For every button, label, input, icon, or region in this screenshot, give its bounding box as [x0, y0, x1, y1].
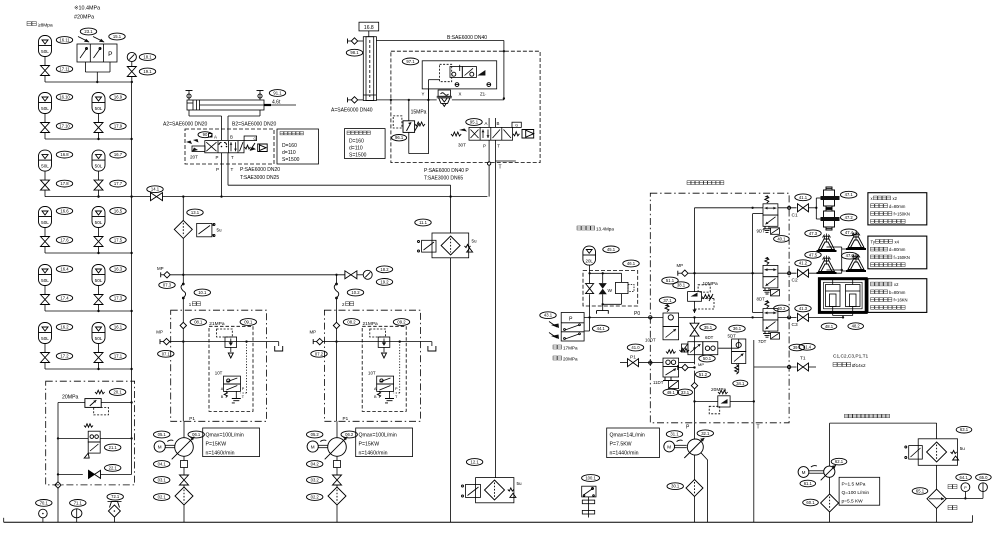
svg-text:C1,C2,C3,P1,T1: C1,C2,C3,P1,T1: [833, 354, 869, 360]
svg-text:17.10: 17.10: [59, 124, 70, 129]
label 38.1: [673, 282, 689, 289]
note A2 port: [163, 122, 208, 128]
svg-text:17.5: 17.5: [114, 238, 123, 243]
svg-text:P0: P0: [634, 311, 640, 317]
svg-text:17.11: 17.11: [59, 67, 70, 72]
svg-text:07.3: 07.3: [163, 283, 172, 288]
pressure switch block 44: [549, 313, 584, 342]
svg-text:n=1440r/min: n=1440r/min: [610, 451, 639, 457]
svg-text:41.3: 41.3: [799, 306, 808, 311]
tank drain 46: [597, 304, 609, 314]
label 70.1: [36, 500, 52, 507]
svg-text:50L: 50L: [41, 106, 49, 111]
shut-off valve 17.9: [94, 123, 103, 140]
svg-text:n=1460r/min: n=1460r/min: [359, 451, 388, 457]
tank drain 2: [428, 342, 436, 351]
label 45.1: [603, 246, 619, 253]
svg-text:P: P: [216, 155, 219, 160]
wire MP line: [161, 272, 345, 278]
shut-off valve C2: [798, 269, 809, 277]
spec box ty-clamp: [868, 236, 927, 269]
svg-text:40.1: 40.1: [777, 236, 786, 241]
clamp 47.2: [821, 208, 840, 230]
svg-text:48.2: 48.2: [852, 324, 861, 329]
shut-off valve in 46: [586, 284, 594, 294]
svg-text:09.1: 09.1: [244, 320, 253, 325]
label 64.1: [956, 474, 972, 481]
svg-text:P: P: [108, 51, 112, 58]
svg-text:10T: 10T: [215, 371, 223, 376]
svg-text:47.1: 47.1: [845, 192, 854, 197]
note 10T 2: [368, 371, 376, 376]
wire C3 branch: [809, 316, 845, 318]
svg-text:71.1: 71.1: [74, 500, 83, 505]
svg-text:19.1: 19.1: [143, 69, 152, 74]
pressure switch block 23.1: [77, 37, 117, 63]
wire supply bus east: [451, 196, 488, 198]
pressure gauge 64: [961, 483, 970, 499]
svg-text:37.1: 37.1: [663, 298, 672, 303]
drive shaft cooling: [809, 466, 824, 474]
label 36.1: [729, 325, 745, 332]
label 43.1: [540, 312, 556, 319]
svg-text:MP: MP: [310, 330, 317, 335]
pump 2: [325, 421, 348, 460]
svg-text:d=80mm: d=80mm: [889, 247, 906, 252]
junction: [97, 310, 99, 312]
label 51.2: [696, 371, 711, 377]
svg-text:P=7.5KW: P=7.5KW: [610, 442, 632, 448]
label 04.2: [307, 461, 323, 468]
label 07.3: [159, 282, 175, 289]
svg-text:P1: P1: [630, 354, 636, 360]
svg-text:T:SAE3000 DN25: T:SAE3000 DN25: [240, 175, 279, 181]
label 17.8: [56, 180, 72, 187]
svg-text:20MPa: 20MPa: [563, 357, 578, 362]
filter 13.1: [174, 220, 222, 238]
note 10T 1: [215, 371, 223, 376]
svg-text:20L: 20L: [586, 258, 594, 263]
wire T 90: [227, 153, 229, 185]
spec box press-clamp: [868, 279, 927, 313]
svg-text:5u: 5u: [472, 239, 478, 244]
svg-text:38.1: 38.1: [677, 283, 686, 288]
svg-text:G: G: [515, 124, 518, 128]
label 18.2: [376, 266, 392, 273]
svg-text:16.6: 16.6: [60, 209, 69, 214]
solenoid valve 11DT: [653, 350, 679, 389]
svg-text:17.8: 17.8: [60, 181, 69, 186]
shut-off valve P1: [628, 359, 639, 367]
svg-text:09.2: 09.2: [397, 320, 406, 325]
cylinder 98 body: [363, 37, 376, 101]
svg-text:M: M: [158, 444, 162, 449]
solenoid valve in 46: [603, 282, 634, 304]
accumulator 16.1: [92, 323, 105, 353]
wire row bus 0: [45, 81, 132, 83]
svg-text:f=150KN: f=150KN: [894, 212, 910, 217]
spec box column: [345, 129, 386, 159]
wire row bus 5: [45, 368, 132, 370]
dashed box relief 2: [362, 326, 406, 411]
label 17.7: [110, 180, 126, 187]
shut-off valve 14.1: [151, 193, 163, 201]
dashed box manifold: [650, 193, 789, 423]
label 18.1: [139, 54, 155, 61]
bleed valve right: [257, 91, 264, 101]
wire P 90: [221, 153, 223, 197]
junction: [97, 195, 99, 197]
pressure gauge 18.1: [127, 52, 136, 61]
svg-text:A2=SAE6000 DN20: A2=SAE6000 DN20: [163, 122, 208, 128]
label 10.2: [347, 289, 363, 296]
svg-text:44.1: 44.1: [597, 326, 606, 331]
label 60.1: [803, 499, 819, 506]
label 22.1: [105, 465, 121, 472]
filter 63.1: [905, 439, 965, 466]
svg-text:M: M: [667, 444, 671, 449]
note C1: [792, 213, 798, 219]
label 03.1: [154, 477, 170, 484]
wire T1: [754, 365, 797, 368]
svg-text:C2: C2: [792, 278, 798, 284]
svg-text:50L: 50L: [95, 336, 103, 341]
svg-text:97.1: 97.1: [406, 59, 415, 64]
svg-text:16.1: 16.1: [114, 325, 123, 330]
svg-text:21.1: 21.1: [109, 445, 118, 450]
label 06.1: [188, 431, 204, 438]
spec box pump 1: [203, 428, 260, 457]
wire row bus 3: [45, 252, 132, 254]
accumulator 16.2: [39, 323, 52, 353]
note 15MPa: [411, 110, 427, 116]
clamp 47.4: [846, 232, 866, 250]
svg-text:16.9: 16.9: [114, 95, 123, 100]
svg-text:P=1.5 MPa: P=1.5 MPa: [842, 482, 866, 488]
cylinder 91 body: [187, 100, 296, 110]
svg-text:6DT: 6DT: [705, 335, 714, 340]
svg-text:60.1: 60.1: [806, 500, 815, 505]
relief valve 38 10MPa: [688, 285, 714, 309]
svg-text:04.2: 04.2: [311, 462, 320, 467]
filter 11.1: [418, 233, 478, 258]
label 17.1: [110, 353, 126, 360]
svg-text:8DT: 8DT: [757, 297, 766, 302]
svg-text:10.2: 10.2: [351, 290, 360, 295]
svg-text:P: P: [569, 317, 573, 323]
label 16.1: [110, 324, 126, 331]
note P1 2: [343, 416, 349, 421]
svg-text:08.1: 08.1: [194, 320, 203, 325]
solenoid valve 6DT: [680, 342, 718, 355]
label 15.1: [109, 33, 125, 40]
label 09.1: [240, 319, 256, 326]
svg-text:15MPa: 15MPa: [411, 110, 427, 116]
note cooling title: [845, 414, 890, 418]
note PT 2: [216, 167, 234, 172]
pressure tap MP 2: [313, 338, 336, 344]
shut-off valve 17.6: [41, 237, 50, 254]
cylinder top port: [348, 38, 364, 44]
svg-text:MP: MP: [157, 266, 164, 271]
label 44.1: [593, 325, 609, 332]
junction: [130, 138, 132, 140]
label 16.4: [56, 266, 72, 273]
note pump name 2: [342, 302, 354, 307]
clamp 47.5: [817, 256, 837, 274]
wire Y pilot: [428, 80, 439, 100]
wire station drop 1: [180, 275, 186, 422]
label 16.11: [56, 37, 72, 44]
wire C1: [778, 206, 797, 209]
junction: [97, 138, 99, 140]
label 04.1: [154, 461, 170, 468]
label 13.1: [187, 209, 203, 216]
svg-text:X: X: [459, 92, 462, 97]
wire row bus 4: [45, 310, 132, 312]
heat exchanger 65.1: [927, 489, 946, 522]
spec box pump 2: [356, 428, 413, 457]
note 5DT: [728, 334, 737, 339]
wire T drop 95: [495, 140, 515, 477]
svg-text:D=160: D=160: [282, 143, 297, 149]
junction: [130, 252, 132, 254]
note C3: [792, 322, 798, 328]
accumulator 16.7: [92, 150, 105, 180]
wire MP cross 1: [182, 340, 279, 342]
wire C3: [778, 316, 797, 319]
solenoid valve 5DT: [732, 339, 746, 374]
label 47.3: [805, 230, 821, 237]
svg-text:23.1: 23.1: [84, 29, 93, 34]
wire 46 top: [588, 265, 621, 283]
note MP upper: [677, 263, 684, 268]
label 40.1: [774, 236, 790, 243]
svg-text:22.1: 22.1: [109, 465, 118, 470]
label 41.1: [795, 194, 811, 201]
label 16.10: [56, 94, 72, 101]
spec box pump 3: [607, 428, 660, 458]
pump 3 drain: [701, 453, 708, 523]
svg-text:41.1: 41.1: [799, 195, 808, 200]
dashed box accumulator block: [583, 271, 638, 306]
note precharge 13.4Mpa: [577, 226, 614, 232]
position box 16.8: [359, 22, 379, 37]
wire interconnect riser: [751, 214, 763, 313]
check valve 22.1: [57, 470, 132, 478]
dashed box relief 1: [209, 326, 253, 411]
note outputs: [833, 354, 869, 360]
label 51.1: [662, 277, 678, 284]
svg-text:18.1: 18.1: [143, 55, 152, 60]
relief valve 96: [393, 116, 425, 133]
svg-text:46.1: 46.1: [627, 261, 636, 266]
solenoid box G: [512, 122, 521, 127]
svg-text:13.1: 13.1: [191, 210, 200, 215]
label 71.1: [70, 500, 86, 507]
svg-text:30.1: 30.1: [671, 484, 680, 489]
svg-text:A: A: [485, 121, 488, 126]
spec box trolley: [277, 129, 319, 164]
svg-text:17.3: 17.3: [114, 296, 123, 301]
svg-text:P:SAE6000 DN40 P: P:SAE6000 DN40 P: [424, 168, 469, 174]
note PT: [216, 155, 235, 160]
note MP: [157, 266, 164, 271]
label 41.0: [627, 344, 643, 351]
label 98.1: [346, 49, 362, 56]
svg-text:P=15KW: P=15KW: [206, 442, 227, 448]
label 47.1: [841, 191, 857, 198]
svg-text:16.8: 16.8: [364, 25, 374, 31]
accumulator 16.5: [92, 207, 105, 237]
label 72.1: [107, 493, 123, 500]
wire filter to cooler: [936, 465, 938, 489]
shut-off valve 17.1: [94, 353, 103, 370]
svg-text:Qmax=14L/min: Qmax=14L/min: [610, 433, 645, 439]
directional valve 9DT: [757, 195, 780, 234]
wire C2 branch: [809, 272, 842, 274]
dashed box block 97: [391, 51, 540, 162]
label 16.6: [56, 208, 72, 215]
svg-text:16.4: 16.4: [60, 267, 69, 272]
label 96.1: [392, 135, 407, 141]
label 12.1: [466, 459, 482, 466]
svg-text:P1: P1: [189, 416, 195, 421]
svg-text:62.1: 62.1: [835, 459, 844, 464]
svg-text:17.1: 17.1: [114, 354, 123, 359]
label 41.2: [795, 260, 811, 267]
relief valve 21MPa 2: [370, 329, 400, 393]
svg-text:16.3: 16.3: [114, 267, 123, 272]
svg-text:02.1: 02.1: [158, 495, 167, 500]
tank drain 1: [275, 342, 283, 351]
svg-text:20.1: 20.1: [114, 390, 123, 395]
note PT 95: [483, 144, 500, 149]
wire cooling top: [830, 423, 937, 466]
label 91.1: [269, 90, 285, 97]
label 100.1: [582, 475, 600, 482]
shut-off valve 19.1: [127, 62, 136, 84]
svg-text:50L: 50L: [95, 278, 103, 283]
suction filter 60.1: [821, 494, 839, 522]
note P exit: [686, 425, 690, 431]
label 47.6: [842, 252, 858, 259]
shut-off valve C1: [798, 204, 809, 212]
relief valve 20.1: [85, 390, 108, 415]
svg-text:51.2: 51.2: [699, 372, 708, 377]
label 21.1: [105, 444, 121, 451]
label 41.4: [799, 343, 815, 350]
note 6DT: [705, 335, 714, 340]
shut-off valve 17.10: [41, 123, 50, 140]
pressure gauge 18.2: [357, 270, 372, 279]
svg-text:A: A: [221, 387, 224, 391]
note B SAE: [447, 35, 487, 41]
svg-text:13.4Mpa: 13.4Mpa: [596, 227, 614, 232]
svg-text:72.1: 72.1: [111, 494, 120, 499]
note pressure range: [553, 345, 578, 362]
wire P1 inside: [679, 362, 695, 364]
label 17.4: [56, 295, 72, 302]
shut-off valve C3: [798, 313, 809, 321]
shut-off valve 17.3: [94, 295, 103, 312]
note pipe spec: [833, 363, 866, 369]
svg-text:06.1: 06.1: [192, 432, 201, 437]
svg-text:17MPa: 17MPa: [563, 346, 578, 351]
svg-text:17.6: 17.6: [60, 238, 69, 243]
svg-text:17.2: 17.2: [60, 354, 69, 359]
label 09.2: [393, 319, 409, 326]
wire C2: [778, 272, 797, 275]
drive shaft 2: [318, 440, 327, 448]
svg-text:100.1: 100.1: [585, 476, 596, 481]
tank sensor 70.1: [39, 509, 48, 522]
note MP lower: [698, 362, 704, 367]
svg-text:M: M: [802, 470, 806, 475]
solenoid valve 10T 2: [374, 376, 398, 403]
svg-text:30T: 30T: [458, 143, 466, 148]
svg-text:x2: x2: [893, 196, 898, 201]
svg-text:10MPa: 10MPa: [703, 281, 719, 287]
svg-text:47.2: 47.2: [845, 215, 854, 220]
bleed valve left: [186, 91, 193, 101]
shut-off valve 03.1: [180, 475, 189, 487]
label 17.2: [56, 353, 72, 360]
accumulator 16.4: [39, 265, 52, 295]
svg-text:96.1: 96.1: [395, 135, 404, 140]
svg-text:16.11: 16.11: [59, 38, 70, 43]
dashed box unloading block: [46, 381, 135, 485]
wire A2 drop: [189, 110, 222, 140]
svg-text:40.2: 40.2: [777, 306, 786, 311]
note P SAE: [240, 167, 280, 173]
note T right: [499, 165, 502, 171]
junction: [97, 252, 99, 254]
shut-off valve 17.8: [41, 180, 50, 197]
svg-text:B2=SAE6000 DN20: B2=SAE6000 DN20: [232, 122, 277, 128]
svg-text:10T: 10T: [368, 371, 376, 376]
pilot control box 97: [422, 61, 497, 97]
dashed box valve 90: [185, 129, 274, 164]
svg-text:B: B: [221, 395, 224, 399]
shut-off valve 19.2x: [345, 271, 357, 279]
svg-text:p=5.5 KW: p=5.5 KW: [842, 499, 864, 505]
note manifold title: [687, 181, 724, 185]
shut-off valve 35.1: [690, 323, 699, 336]
note AB 95: [485, 121, 500, 126]
label 37.1: [659, 297, 675, 304]
svg-text:Ø14x2: Ø14x2: [852, 363, 866, 368]
label 48.1: [821, 323, 837, 330]
wire 95 ports up: [489, 118, 495, 127]
wire MP cross 2: [335, 340, 432, 342]
label 47.4: [841, 229, 857, 236]
pump 1: [172, 421, 195, 460]
label 08.1: [190, 319, 206, 326]
svg-text:03.1: 03.1: [158, 478, 167, 483]
label 49.1: [663, 389, 679, 396]
svg-text:50L: 50L: [41, 278, 49, 283]
svg-text:M: M: [311, 444, 315, 449]
motor M2: [307, 441, 318, 452]
svg-text:C3: C3: [792, 322, 798, 328]
note T1: [800, 356, 806, 362]
clamp 47.3: [817, 234, 837, 252]
shut-off valve 17.5: [94, 237, 103, 254]
label 65.0: [976, 474, 992, 481]
pressure tap MP upper: [678, 270, 695, 276]
dashed box station 2: [324, 310, 420, 421]
